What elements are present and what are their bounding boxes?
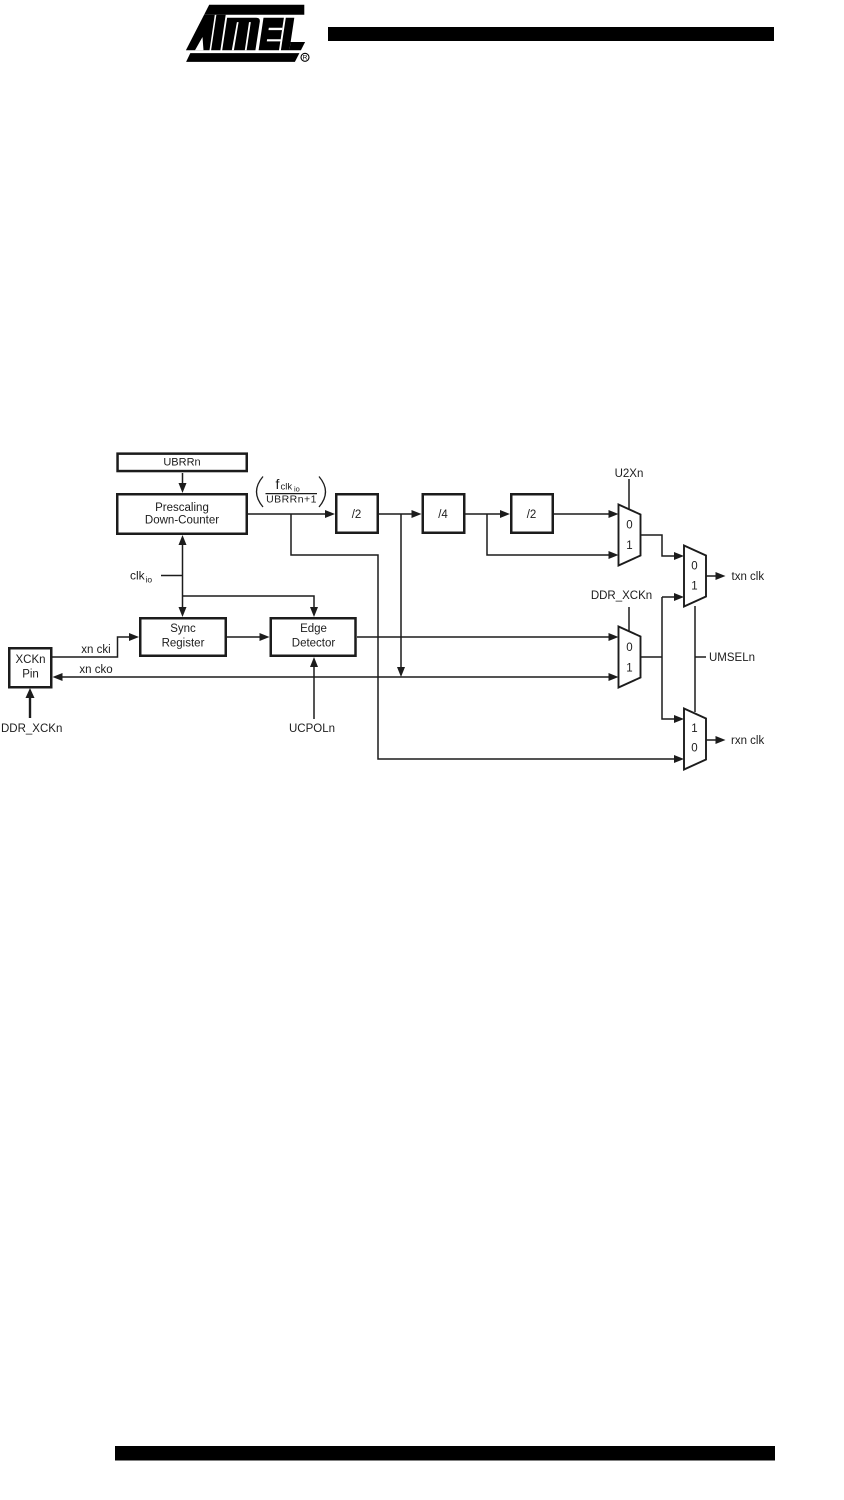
svg-text:xn cko: xn cko bbox=[79, 664, 112, 676]
svg-text:0: 0 bbox=[626, 642, 632, 654]
svg-text:clk: clk bbox=[281, 482, 293, 493]
svg-text:UCPOLn: UCPOLn bbox=[289, 723, 335, 735]
svg-text:0: 0 bbox=[691, 561, 697, 573]
svg-text:rxn clk: rxn clk bbox=[731, 735, 764, 747]
svg-text:UBRRn+1: UBRRn+1 bbox=[266, 494, 317, 506]
svg-text:Prescaling: Prescaling bbox=[155, 502, 209, 514]
svg-text:1: 1 bbox=[626, 540, 632, 552]
svg-text:1: 1 bbox=[691, 581, 697, 593]
svg-text:/4: /4 bbox=[438, 509, 448, 521]
svg-text:/2: /2 bbox=[352, 509, 362, 521]
svg-text:clk: clk bbox=[130, 569, 146, 583]
svg-text:1: 1 bbox=[626, 663, 632, 675]
svg-text:DDR_XCKn: DDR_XCKn bbox=[1, 723, 62, 735]
svg-text:XCKn: XCKn bbox=[15, 654, 45, 666]
svg-text:UBRRn: UBRRn bbox=[163, 457, 200, 469]
svg-text:DDR_XCKn: DDR_XCKn bbox=[591, 590, 652, 602]
svg-text:0: 0 bbox=[626, 520, 632, 532]
svg-text:UMSELn: UMSELn bbox=[709, 652, 755, 664]
svg-text:io: io bbox=[294, 485, 300, 494]
svg-text:io: io bbox=[146, 575, 153, 585]
svg-text:Detector: Detector bbox=[292, 638, 336, 650]
svg-text:1: 1 bbox=[691, 723, 697, 735]
svg-text:xn cki: xn cki bbox=[81, 644, 110, 656]
svg-text:txn clk: txn clk bbox=[732, 571, 765, 583]
svg-text:/2: /2 bbox=[527, 509, 537, 521]
svg-text:Register: Register bbox=[162, 638, 205, 650]
svg-text:0: 0 bbox=[691, 743, 697, 755]
svg-text:Edge: Edge bbox=[300, 623, 327, 635]
svg-text:Down-Counter: Down-Counter bbox=[145, 515, 219, 527]
svg-text:f: f bbox=[276, 476, 280, 492]
svg-text:Sync: Sync bbox=[170, 623, 196, 635]
svg-text:U2Xn: U2Xn bbox=[615, 468, 644, 480]
svg-text:R: R bbox=[303, 55, 308, 62]
svg-text:Pin: Pin bbox=[22, 669, 39, 681]
